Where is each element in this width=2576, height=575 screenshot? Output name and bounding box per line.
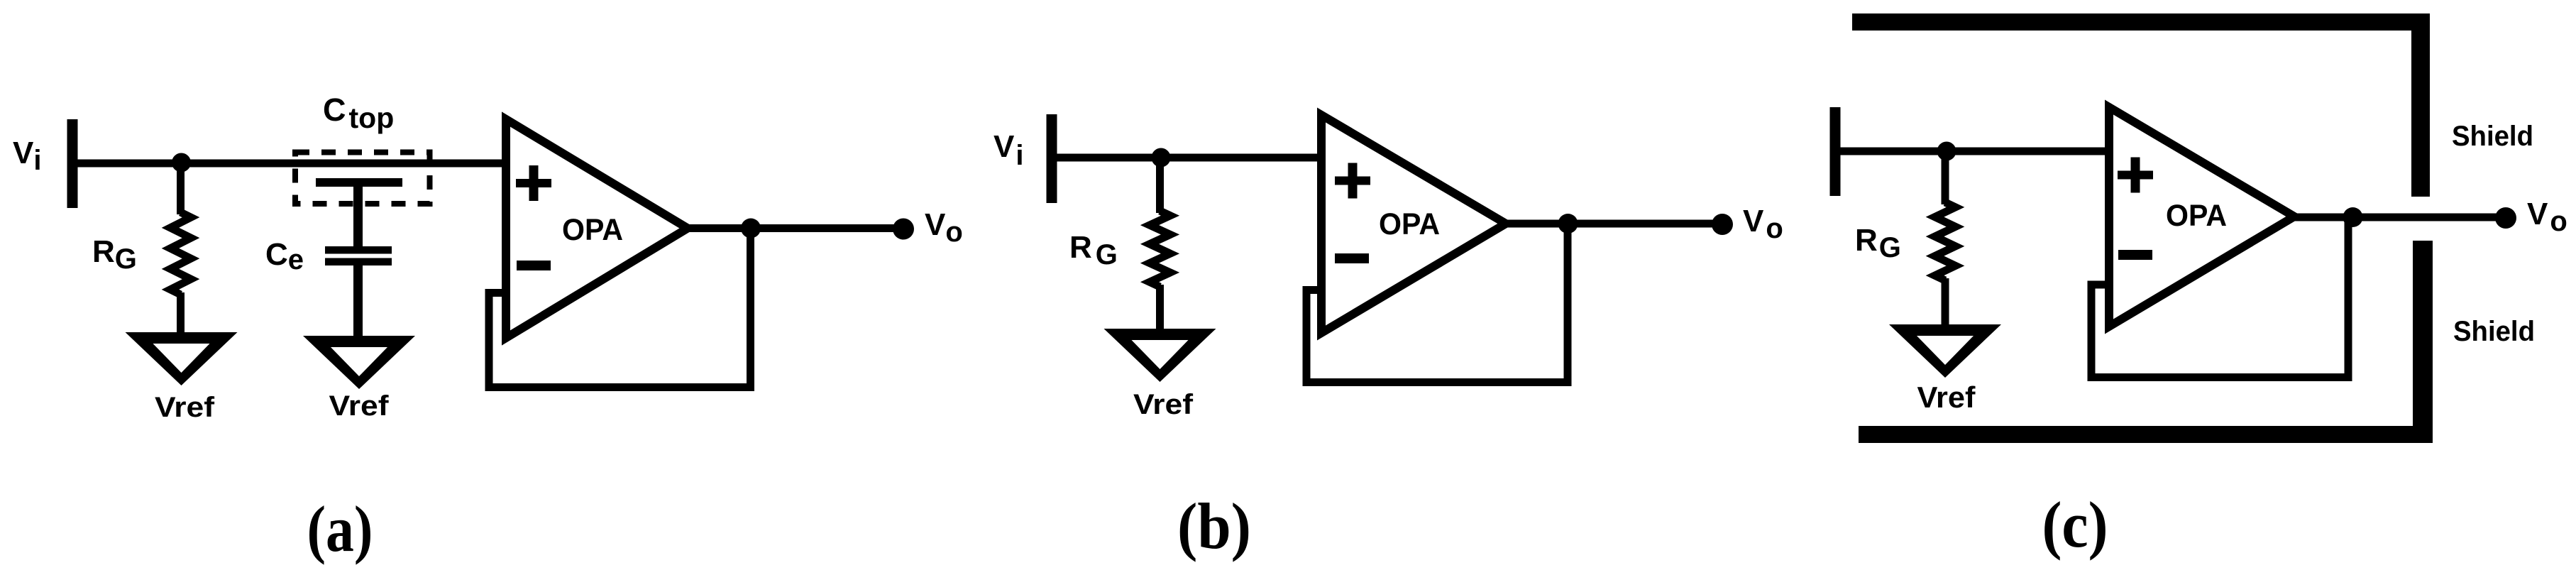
svg-text:(a): (a) bbox=[307, 493, 373, 565]
op-amp minus input marker (a) bbox=[517, 261, 551, 270]
wire RG top lead (a) bbox=[177, 163, 185, 214]
junction output node (a) bbox=[741, 219, 761, 239]
junction output node (b) bbox=[1558, 214, 1578, 234]
shield right lower bar (c) bbox=[2413, 241, 2433, 443]
wire output (a) bbox=[688, 224, 903, 232]
shield bottom bar (c) bbox=[1859, 426, 2433, 443]
junction input node (b) bbox=[1152, 148, 1171, 168]
svg-text:OPA: OPA bbox=[2166, 199, 2227, 233]
op-amp plus input marker (c) bbox=[2118, 158, 2153, 193]
wire output (b) bbox=[1506, 220, 1722, 228]
wire RG bottom lead (b) bbox=[1156, 285, 1164, 332]
svg-text:OPA: OPA bbox=[1379, 207, 1440, 241]
junction output node (c) bbox=[2343, 207, 2363, 227]
ground Vref symbol under Ce (a) bbox=[303, 336, 415, 389]
junction input node (a) bbox=[172, 153, 191, 172]
wire input Vi to op-amp (b) bbox=[1056, 154, 1322, 162]
electrode input terminal (c) bbox=[1830, 107, 1841, 196]
capacitor Ctop lower plate (a) bbox=[316, 178, 402, 187]
shield right upper bar (c) bbox=[2411, 13, 2430, 197]
svg-text:Vref: Vref bbox=[155, 392, 215, 423]
svg-text:OPA: OPA bbox=[562, 213, 623, 247]
wire capacitor stem lower (a) bbox=[353, 262, 363, 339]
wire input Vi to op-amp (a) bbox=[77, 160, 507, 168]
wire feedback loop (a) bbox=[489, 229, 751, 388]
wire input to op-amp (c) bbox=[1839, 148, 2110, 155]
electrode input terminal (b) bbox=[1047, 114, 1057, 203]
resistor RG (a) bbox=[170, 212, 191, 295]
op-amp plus input marker (b) bbox=[1335, 163, 1370, 199]
svg-text:Vref: Vref bbox=[1133, 389, 1194, 420]
op-amp OPA triangle (c) bbox=[2109, 107, 2294, 327]
electrode input terminal (a) bbox=[67, 119, 78, 208]
wire RG bottom lead (c) bbox=[1942, 278, 1949, 327]
resistor RG (b) bbox=[1150, 211, 1170, 287]
svg-text:Shield: Shield bbox=[2453, 316, 2535, 347]
svg-text:Vref: Vref bbox=[1917, 380, 1976, 414]
op-amp OPA triangle (b) bbox=[1321, 115, 1506, 333]
svg-text:Shield: Shield bbox=[2452, 121, 2533, 152]
terminal dot Vo (a) bbox=[893, 219, 914, 240]
wire RG top lead (b) bbox=[1156, 158, 1164, 213]
wire output (c) bbox=[2294, 214, 2506, 221]
resistor RG (c) bbox=[1935, 202, 1956, 280]
op-amp plus input marker (a) bbox=[516, 165, 551, 201]
capacitor Ce plates (a) bbox=[325, 246, 392, 265]
svg-text:(b): (b) bbox=[1177, 490, 1251, 562]
svg-text:Vref: Vref bbox=[329, 390, 390, 422]
shield top bar (c) bbox=[1852, 13, 2425, 31]
op-amp OPA triangle (a) bbox=[506, 119, 688, 338]
svg-text:(c): (c) bbox=[2042, 488, 2108, 561]
wire RG bottom lead (a) bbox=[177, 292, 185, 335]
op-amp minus input marker (c) bbox=[2118, 250, 2152, 260]
terminal dot Vo (b) bbox=[1712, 214, 1733, 235]
op-amp minus input marker (b) bbox=[1335, 253, 1369, 263]
dashed box around Ctop (a) bbox=[295, 153, 430, 204]
junction input node (c) bbox=[1937, 142, 1956, 161]
terminal dot Vo (c) bbox=[2495, 207, 2516, 229]
ground Vref symbol (b) bbox=[1104, 329, 1216, 382]
ground Vref symbol (c) bbox=[1889, 324, 2001, 378]
wire feedback loop (c) bbox=[2091, 217, 2348, 378]
wire RG top lead (c) bbox=[1942, 151, 1949, 204]
wire feedback loop (b) bbox=[1306, 224, 1568, 383]
wire capacitor stem upper (a) bbox=[353, 183, 363, 250]
ground Vref symbol under RG (a) bbox=[126, 332, 238, 385]
